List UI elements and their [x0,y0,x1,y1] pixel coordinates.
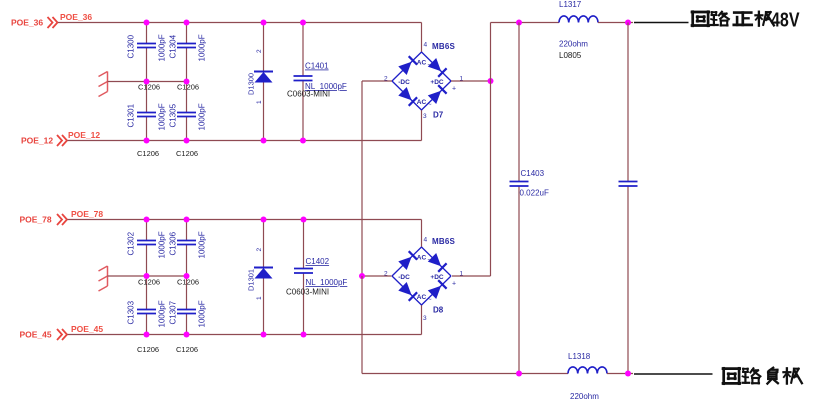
wire POE_36 drop to D7 pin 4 [421,23,423,53]
svg-text:+: + [452,281,456,288]
wire bottom rail left of L1318 [362,373,568,375]
diode D1300 (TVS, cathode up) [254,72,273,83]
output lead 回路正极48V (black wire) [634,22,689,24]
svg-text:4: 4 [424,42,428,49]
svg-text:AC: AC [417,255,427,262]
svg-text:1000pF: 1000pF [198,34,207,61]
svg-text:~: ~ [427,62,431,69]
svg-text:C0603-MINI: C0603-MINI [286,288,329,297]
svg-text:C1401: C1401 [305,62,329,71]
wire C1403 branch lower [518,186,520,374]
capacitor C1302 plates [137,240,156,242]
C1302 labels [127,231,167,258]
junction dots POE_12 rail [144,138,307,144]
svg-text:C1300: C1300 [127,34,136,58]
wire net POE_12 rail [68,140,422,142]
svg-text:C1402: C1402 [306,257,330,266]
C1303 labels [127,300,167,327]
ground (chassis) symbol [99,72,108,97]
wire D8 pin 1 to right [452,275,491,277]
D7 pin numbers 1 2 3 4 [384,42,464,121]
svg-text:1000pF: 1000pF [158,231,167,258]
capacitor C1306 1000pF branch wire upper [186,220,188,241]
capacitor C1301 plates [137,112,156,114]
svg-text:C1301: C1301 [127,103,136,127]
svg-text:220ohm: 220ohm [570,392,599,401]
wire vertical negative branch from D7 pin2 down [361,81,363,276]
wire D7 pin 1 to right [451,80,491,82]
wire right filter cap branch upper [627,23,629,182]
svg-text:D7: D7 [433,111,444,120]
svg-text:POE_36: POE_36 [11,18,43,28]
svg-text:0.022uF: 0.022uF [520,189,549,198]
footprint labels C1206 lower mid row [138,278,199,287]
svg-text:POE_36: POE_36 [60,12,92,22]
wire POE_78 drop to D8 pin 4 [421,220,423,248]
svg-text:POE_45: POE_45 [71,324,103,334]
D7 internal labels AC/-DC/+DC/AC and polarity mark [398,60,456,109]
svg-text:4: 4 [424,237,428,244]
wire upper mid rail (ground tie) [108,81,187,83]
svg-text:-DC: -DC [398,274,410,281]
wire D8 pin 3 stub to POE_45 [421,305,423,335]
junction dot negative branch at D8 pin 2 [359,273,365,279]
C1307 labels [169,300,207,327]
svg-text:C1304: C1304 [169,34,178,58]
svg-text:C1206: C1206 [138,83,160,92]
junction dot top rail at C1403 branch [516,20,522,26]
capacitor C1305 1000pF branch wire lower [186,82,188,113]
capacitor C1300 1000pF branch wire upper [146,23,148,44]
svg-text:AC: AC [417,60,427,67]
capacitor C1303 plates [137,309,156,311]
wire D1301 branch [263,220,265,335]
svg-text:+DC: +DC [430,274,443,281]
svg-text:1000pF: 1000pF [198,103,207,130]
wire negative branch down to bottom rail [361,276,363,374]
wire net POE_45 rail [68,334,422,336]
svg-text:NL_1000pF: NL_1000pF [306,278,348,287]
footprint labels C1206 upper mid row [138,83,199,92]
ground (chassis) symbol [99,266,108,291]
junction dots lower mid rail [144,273,190,279]
wire lower mid rail (ground tie) [108,275,187,277]
svg-text:L1318: L1318 [568,352,591,361]
svg-text:C1403: C1403 [521,169,545,178]
wire C1401 branch upper [302,23,304,77]
svg-text:C1206: C1206 [177,278,199,287]
wire top rail to L1317 [491,22,560,24]
C1301 labels [127,103,167,130]
capacitor C1401 plates [294,75,313,77]
label 回路负极 (hand-drawn CJK strokes) [723,368,802,384]
port POE_78 [20,214,68,225]
port POE_45 [20,329,68,340]
junction dots upper mid rail [144,79,190,85]
C1300 labels [127,34,167,61]
wire D7 pin 2 to left [362,80,392,82]
svg-text:C1302: C1302 [127,231,136,255]
bridge rectifier D7 MB6S body [392,52,451,110]
wire right filter cap branch lower [627,186,629,374]
diode D1301 (TVS, cathode up) [254,268,273,279]
svg-text:POE_78: POE_78 [71,209,103,219]
svg-text:C1305: C1305 [169,103,178,127]
svg-text:~: ~ [427,297,431,304]
inductor L1317 coil [559,16,598,23]
junction dot bottom rail output node [625,371,631,377]
svg-text:AC: AC [417,294,427,301]
svg-text:C1307: C1307 [169,300,178,324]
svg-text:1000pF: 1000pF [158,103,167,130]
svg-text:POE_45: POE_45 [20,330,52,340]
footprint labels C1206 upper bottom row [137,149,198,158]
svg-text:~: ~ [427,102,431,109]
svg-text:C1206: C1206 [176,149,198,158]
svg-text:POE_12: POE_12 [21,136,53,146]
svg-text:~: ~ [427,257,431,264]
svg-text:AC: AC [417,99,427,106]
junction dots POE_78 rail [144,217,307,223]
svg-text:MB6S: MB6S [432,237,455,246]
capacitor C1302 1000pF branch wire upper [146,220,148,241]
svg-text:POE_12: POE_12 [68,130,100,140]
svg-text:2: 2 [256,248,263,252]
label 回路正极48V (hand-drawn CJK strokes) [692,10,800,32]
svg-text:L1317: L1317 [559,0,582,9]
inductor L1318 coil [568,367,607,374]
bridge rectifier D8 MB6S body [392,247,451,305]
wire net POE_78 rail [68,219,422,221]
output lead 回路负极 (black wire) [634,373,713,375]
wire C1403 branch upper [518,23,520,182]
svg-text:C1206: C1206 [176,345,198,354]
D8 internal labels AC/-DC/+DC/AC and polarity mark [398,255,456,304]
footprint labels C1206 lower bottom row [137,345,198,354]
svg-text:220ohm: 220ohm [559,40,588,49]
svg-text:MB6S: MB6S [432,42,455,51]
capacitor C1304 plates [177,43,196,45]
junction dots POE_45 rail [144,332,307,338]
svg-text:3: 3 [423,315,427,322]
svg-text:1: 1 [256,296,263,300]
C1306 labels [169,231,207,258]
capacitor C1303 1000pF branch wire lower [146,276,148,310]
port POE_12 [21,135,67,146]
wire C1402 branch upper [303,220,305,269]
C1304 labels [169,34,207,61]
svg-text:3: 3 [423,113,427,120]
svg-text:48V: 48V [771,10,800,32]
capacitor C1301 1000pF branch wire lower [146,82,148,113]
svg-text:D8: D8 [433,306,444,315]
svg-text:1000pF: 1000pF [198,300,207,327]
svg-text:-DC: -DC [398,79,410,86]
svg-text:1000pF: 1000pF [198,231,207,258]
svg-text:D1300: D1300 [247,73,256,95]
svg-text:+: + [452,86,456,93]
port POE_36 [11,17,58,28]
svg-text:C1206: C1206 [137,149,159,158]
junction dots POE_36 rail [144,20,307,26]
svg-text:C1206: C1206 [138,278,160,287]
svg-text:C1206: C1206 [137,345,159,354]
junction dot bottom rail at C1403 branch [516,371,522,377]
svg-text:D1301: D1301 [247,269,256,291]
right filter capacitor plates [619,181,638,183]
capacitor C1305 plates [177,112,196,114]
capacitor C1307 plates [177,309,196,311]
svg-text:C1303: C1303 [127,300,136,324]
junction dot D7 pin1 node [488,78,494,84]
wire C1401 branch lower [302,81,304,141]
wire D1300 branch [263,23,265,141]
junction dot top rail output node [625,20,631,26]
wire C1402 branch lower [303,273,305,335]
capacitor C1402 plates [294,268,313,270]
capacitor C1300 plates [137,43,156,45]
wire L1318 to output node [607,373,633,375]
svg-text:+DC: +DC [430,79,443,86]
capacitor C1304 1000pF branch wire upper [186,23,188,44]
C1305 labels [169,103,207,130]
wire D8 pin 2 to negative branch [362,275,392,277]
wire L1317 to output node [598,22,633,24]
capacitor C1306 plates [177,240,196,242]
svg-text:C1306: C1306 [169,231,178,255]
svg-text:C0603-MINI: C0603-MINI [287,90,330,99]
wire net POE_36 top rail [58,22,422,24]
svg-text:1000pF: 1000pF [158,300,167,327]
svg-text:L0805: L0805 [559,51,582,60]
svg-text:1000pF: 1000pF [158,34,167,61]
capacitor C1403 plates [510,181,529,183]
svg-text:POE_78: POE_78 [20,215,52,225]
D8 pin numbers 1 2 3 4 [384,237,464,323]
wire D7 pin 3 stub to POE_12 [421,110,423,141]
svg-text:1: 1 [256,100,263,104]
svg-text:2: 2 [256,49,263,53]
wire positive vertical from top rail to D8 pin1 [490,23,492,277]
capacitor C1307 1000pF branch wire lower [186,276,188,310]
